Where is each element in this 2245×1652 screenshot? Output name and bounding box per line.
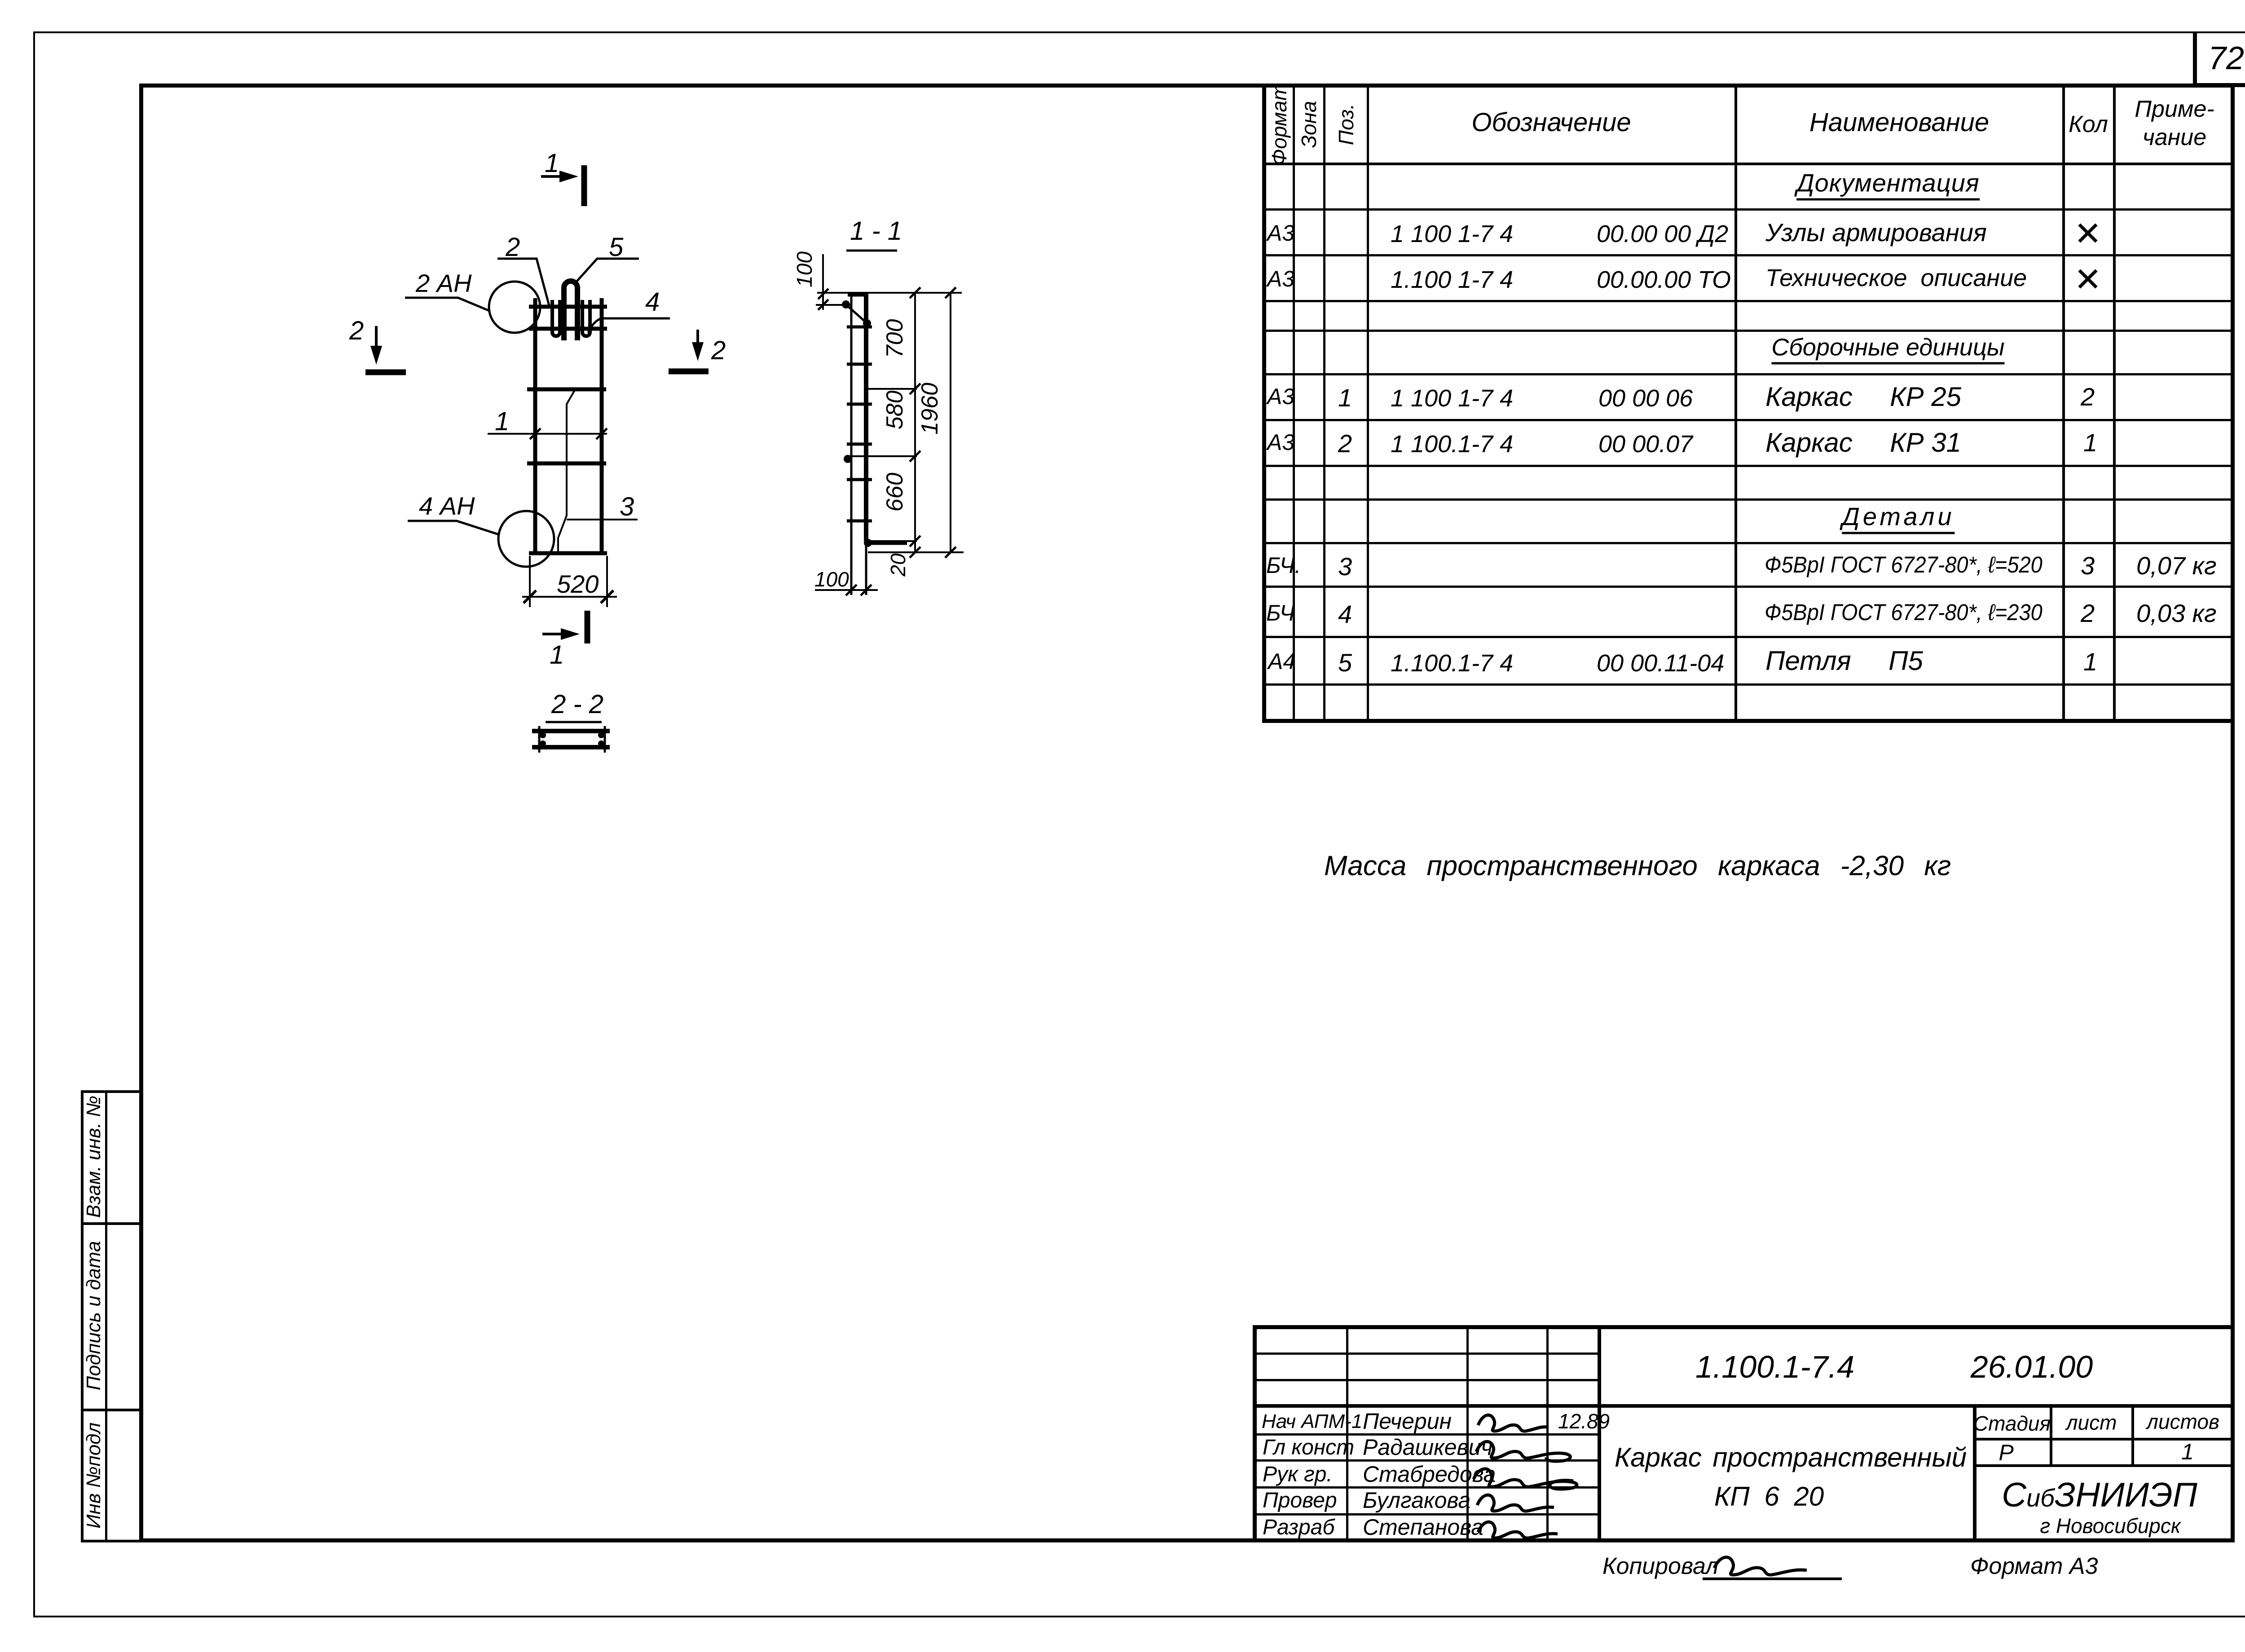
mass note: [1324, 852, 1951, 880]
svg-text:520: 520: [557, 570, 599, 598]
pos 3 leader polyline: [558, 390, 575, 552]
row: Ф5ВрI l=520: [1266, 554, 1301, 577]
pos 1 leader line with ticks: [488, 433, 607, 435]
signature squiggle: Стабредова: [1474, 1469, 1577, 1489]
section 2-2: end wires: [539, 726, 605, 753]
dimension 520: extension lines: [530, 556, 607, 607]
specification table bottom edge: [1262, 719, 2235, 723]
section 2-2: bar dots: [540, 732, 546, 738]
cage right longitudinal bar: [600, 298, 604, 553]
anchor hook right (pos 4): [582, 300, 590, 336]
section mark 2 left: arrow: [375, 326, 378, 357]
organization: [2002, 1478, 2197, 1512]
dimension 520: oblique ticks: [524, 590, 613, 603]
side view: extension lines to dimension chains: [849, 389, 964, 552]
section mark 1 top: arrow: [541, 175, 569, 178]
row: Узлы армирования: [1267, 222, 1294, 244]
svg-text:2 АН: 2 АН: [415, 269, 472, 297]
main drawing frame: [139, 84, 2235, 88]
row: Петля П5: [1268, 650, 1295, 673]
side view: bottom piece: [866, 541, 907, 545]
row: Каркас КР31: [1267, 431, 1294, 454]
table row lines: [1264, 163, 2232, 165]
side view: weld dots: [844, 455, 852, 463]
left attribute column cells: [81, 1090, 84, 1542]
svg-text:5: 5: [609, 233, 624, 262]
cage transverse bar 4: [527, 462, 606, 466]
side view: transverse wire ticks: [847, 326, 872, 329]
side view: top 100 dimension: [822, 254, 824, 310]
title block outer lines: [1253, 1325, 2235, 1329]
anchor hook left (pos 4): [552, 300, 560, 336]
svg-text:1960: 1960: [917, 383, 943, 435]
sheet number box 72: [2193, 32, 2197, 87]
svg-text:580: 580: [882, 391, 908, 430]
svg-text:20: 20: [886, 553, 910, 577]
X mark: [2074, 263, 2102, 296]
svg-text:700: 700: [882, 319, 908, 358]
cage bottom transverse bar: [529, 551, 607, 555]
callout circle 2АН: [489, 282, 540, 333]
title block vertical column lines: [1346, 1327, 1348, 1542]
side view: small step line at 100: [816, 304, 851, 306]
svg-text:1: 1: [545, 149, 559, 178]
svg-text:4 АН: 4 АН: [419, 492, 475, 520]
signature squiggle: Копировал signature: [1714, 1557, 1807, 1575]
stadia labels: [1973, 1413, 2051, 1434]
lifting loop П5: [564, 281, 577, 340]
outer page border: [33, 31, 2245, 33]
side view: left thin chord: [850, 293, 853, 595]
section mark 1 bottom: thick trace: [585, 611, 590, 643]
cage top transverse bar: [529, 305, 607, 309]
dimension 520: dimension line: [522, 596, 617, 598]
signature rows: [1253, 1433, 1599, 1436]
side view: top diagonal weld piece: [846, 304, 867, 323]
row: Детали section title: [1842, 504, 1954, 534]
table column lines: [1293, 85, 1295, 721]
row: Ф5ВрI l=230: [1266, 602, 1294, 624]
title block horizontal divider under document number row (thick): [1253, 1404, 2235, 1408]
row: Документация section title: [1796, 171, 1980, 201]
svg-text:660: 660: [882, 473, 908, 512]
cage left longitudinal bar: [533, 298, 537, 553]
under frame notes: [1602, 1555, 1719, 1578]
side view: outer dimension line 1960: [950, 293, 951, 552]
small top rows (left part): [1253, 1352, 1599, 1355]
row: Сборочные единицы section title: [1771, 335, 2004, 365]
section mark 1 top: thick trace: [581, 165, 587, 206]
cage transverse bar 3: [527, 388, 606, 392]
section mark 2 left: thick trace: [365, 370, 406, 375]
side view: main bar (thick): [864, 293, 868, 541]
signature squiggle: Печерин: [1478, 1415, 1547, 1431]
section mark 2 right: arrow: [696, 330, 699, 353]
signature squiggle: Степанова: [1478, 1522, 1558, 1538]
rotated label: Инв №подл: [84, 1423, 104, 1529]
svg-text:1: 1: [495, 407, 509, 436]
X mark: [2074, 217, 2102, 251]
specification table left edge: [1262, 84, 1266, 723]
table header labels: [1269, 84, 1290, 166]
svg-text:1 - 1: 1 - 1: [850, 216, 902, 246]
callout circle 4АН: [498, 511, 554, 567]
signature table texts: [1262, 1412, 1362, 1432]
section mark 2 right: thick trace: [669, 369, 709, 374]
svg-text:2: 2: [505, 233, 520, 262]
side view: top bend of bar: [848, 293, 868, 297]
svg-text:3: 3: [620, 492, 634, 521]
svg-text:2: 2: [349, 316, 364, 345]
signature squiggle: Радашкевич: [1476, 1441, 1570, 1461]
cage transverse bar 2: [529, 327, 607, 331]
row: Техническое описание: [1267, 268, 1294, 290]
svg-text:100: 100: [814, 568, 849, 591]
rotated label: Подпись и дата: [84, 1241, 104, 1391]
row: Каркас КР25: [1267, 385, 1294, 408]
signature squiggle: Булгакова: [1477, 1495, 1554, 1511]
rotated label: Взам. инв. №: [84, 1096, 104, 1218]
drawing name: [1615, 1444, 1967, 1471]
section mark 1 bottom: arrow: [542, 633, 572, 635]
svg-text:2: 2: [711, 336, 726, 365]
side view: inner dimension line 700/580/660/20: [914, 293, 916, 552]
svg-text:1: 1: [550, 640, 564, 670]
svg-text:2 - 2: 2 - 2: [551, 690, 603, 719]
section 2-2: bottom chord: [532, 745, 610, 749]
section 2-2: top chord: [532, 729, 610, 733]
side view: top extension line: [817, 292, 962, 294]
svg-text:100: 100: [793, 251, 817, 287]
stadia section: [1973, 1406, 1976, 1542]
svg-text:4: 4: [645, 287, 660, 317]
document number: [1695, 1351, 1854, 1383]
